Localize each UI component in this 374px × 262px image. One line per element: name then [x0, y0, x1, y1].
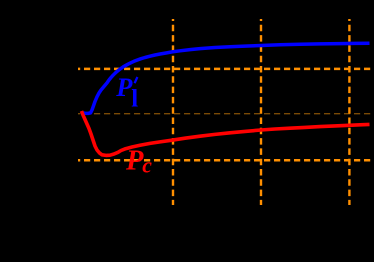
svg-text:P: P [125, 146, 144, 177]
svg-text:l: l [131, 85, 138, 112]
svg-text:c: c [142, 154, 152, 178]
